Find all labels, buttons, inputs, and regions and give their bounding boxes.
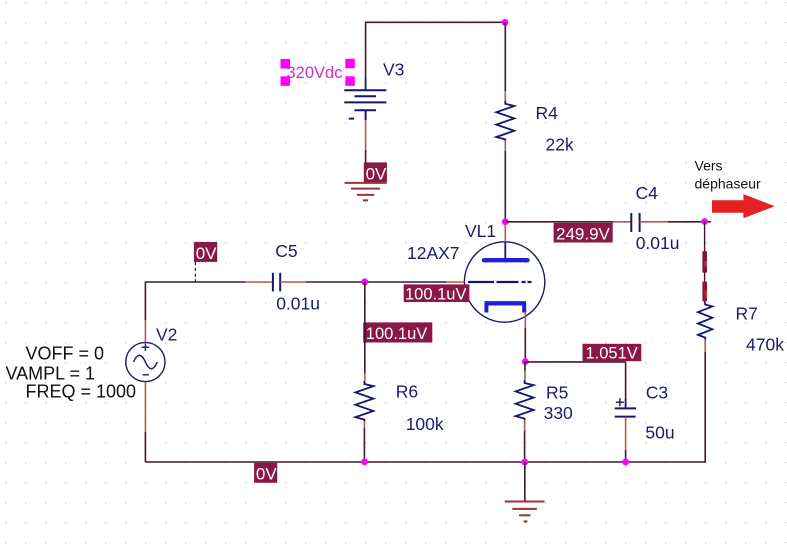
marker dash upper (selected wire) (702, 251, 707, 272)
bias badge 0V near C5 (194, 242, 217, 263)
wire R5 top (524, 362, 526, 371)
pin R7 bottom (704, 340, 706, 352)
svg-text:0.01u: 0.01u (276, 293, 320, 313)
bias badge 0V bottom (254, 463, 277, 484)
grid (dashed) (468, 281, 532, 283)
ground below V3 (345, 183, 387, 200)
svg-text:249.9V: 249.9V (556, 225, 611, 244)
voltage source V3 (battery) (344, 90, 386, 120)
wire C3 to bottom rail (625, 450, 627, 462)
svg-text:100.1uV: 100.1uV (366, 325, 427, 343)
pin C5 left (245, 281, 273, 283)
pin R5 top (524, 371, 526, 380)
pin grid left (446, 281, 465, 283)
wire R6 to bottom rail (363, 428, 365, 462)
wire R5 to bottom rail (524, 431, 526, 462)
svg-text:100.1uV: 100.1uV (405, 286, 466, 304)
node output (701, 218, 708, 225)
wire V2 top rail to C5 (145, 282, 245, 320)
svg-text:22k: 22k (546, 135, 574, 155)
svg-text:0V: 0V (366, 164, 387, 183)
pin C4 left (613, 221, 631, 223)
capacitor C5 (273, 273, 280, 292)
svg-text:V3: V3 (383, 60, 404, 80)
pin R5 bottom (524, 420, 526, 431)
bias badge 249.9V (554, 223, 613, 244)
node C3 bottom (622, 459, 629, 466)
svg-text:0.01u: 0.01u (636, 233, 680, 253)
pin R6 bottom (363, 421, 365, 428)
wire bottom rail (145, 461, 705, 463)
pin cathode (524, 312, 526, 328)
pin R6 top (364, 373, 366, 381)
svg-text:déphaseur: déphaseur (695, 176, 762, 192)
resistor R5 (516, 380, 534, 420)
pin anode (504, 222, 506, 242)
resistor R7 (698, 303, 712, 340)
marker dash lower (selected wire) (702, 282, 707, 302)
svg-text:C5: C5 (275, 241, 297, 261)
pin C4 right (640, 221, 668, 223)
pin C3 bottom (625, 417, 627, 450)
node R5 bottom (521, 459, 528, 466)
stem C3 (625, 399, 627, 408)
wire cathode to node (524, 328, 526, 362)
bias badge 100.1uV at grid (404, 284, 470, 303)
svg-text:R7: R7 (736, 303, 758, 323)
capacitor C4 (631, 213, 639, 232)
svg-text:1.051V: 1.051V (586, 344, 638, 362)
wire R4 to anode node (504, 151, 506, 222)
svg-text:0V: 0V (196, 244, 217, 263)
anode plate (484, 258, 528, 262)
node anode junction (502, 218, 509, 225)
svg-text:C3: C3 (646, 382, 668, 402)
svg-text:R6: R6 (396, 381, 418, 401)
svg-text:R4: R4 (536, 103, 559, 123)
resistor R6 (355, 381, 373, 421)
svg-text:C4: C4 (636, 183, 659, 203)
svg-text:V2: V2 (156, 324, 177, 344)
pin R4 bottom (504, 141, 506, 151)
wire output node down to R7 (704, 222, 706, 304)
wire C4 to output node (668, 221, 711, 223)
svg-text:FREQ = 1000: FREQ = 1000 (26, 382, 137, 402)
pin V3 minus (365, 120, 367, 150)
ground bottom (505, 502, 545, 522)
svg-text:320Vdc: 320Vdc (287, 64, 343, 82)
bias badge 0V at V3 minus (364, 162, 387, 183)
svg-text:0V: 0V (256, 465, 277, 484)
node grid junction (361, 278, 368, 285)
wire grid node down to R6 (364, 282, 366, 373)
pin V2 top (144, 320, 146, 342)
pin V2 bottom (144, 382, 146, 432)
anode stem (504, 242, 506, 259)
svg-text:470k: 470k (746, 334, 784, 354)
svg-text:VOFF = 0: VOFF = 0 (26, 343, 105, 363)
wire V2 bottom to rail (144, 432, 146, 462)
pin C5 right (280, 281, 306, 283)
svg-text:12AX7: 12AX7 (407, 243, 460, 263)
cathode (485, 303, 527, 312)
wire R7 to bottom rail (704, 352, 707, 462)
node R6 bottom (361, 458, 368, 465)
wire node to R4 (504, 22, 506, 91)
svg-text:330: 330 (544, 403, 573, 423)
leader dashed 0V to wire (194, 262, 196, 282)
svg-text:R5: R5 (546, 383, 568, 403)
wire rail to ground (524, 462, 526, 501)
bias badge 1.051V (583, 344, 642, 363)
svg-text:100k: 100k (406, 414, 444, 434)
wire C5 to grid node (306, 281, 446, 283)
node cathode junction (522, 358, 529, 365)
pin V3 plus (365, 78, 367, 90)
wire cathode node to C3 (525, 361, 625, 363)
node top-right corner (502, 19, 509, 26)
resistor R4 (496, 101, 514, 141)
source V2 (126, 342, 165, 381)
bias badge 100.1uV at R6 (363, 322, 432, 343)
svg-text:VL1: VL1 (465, 221, 496, 241)
capacitor C3 (polarized) (615, 398, 636, 416)
pin R4 top (504, 91, 506, 101)
arrow to dephaseur (712, 194, 775, 218)
svg-text:Vers: Vers (695, 158, 723, 174)
triode VL1 envelope (464, 242, 544, 322)
wire top rail from V3 plus to R4 branch (366, 22, 505, 78)
wire anode node to C4 (505, 221, 613, 223)
selection handles (281, 59, 355, 86)
wire V3 minus to ground (365, 150, 367, 182)
wire C3 top (625, 362, 627, 399)
svg-text:50u: 50u (645, 423, 674, 443)
